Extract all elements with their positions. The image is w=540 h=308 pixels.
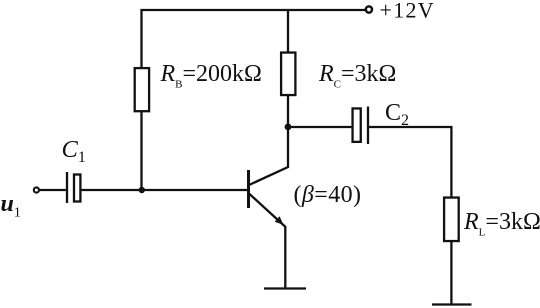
svg-text:RC=3kΩ: RC=3kΩ [318, 61, 396, 91]
svg-text:(β=40): (β=40) [294, 182, 362, 208]
svg-text:RL=3kΩ: RL=3kΩ [463, 209, 540, 239]
svg-text:+12V: +12V [380, 0, 436, 23]
svg-text:RB=200kΩ: RB=200kΩ [160, 61, 262, 91]
